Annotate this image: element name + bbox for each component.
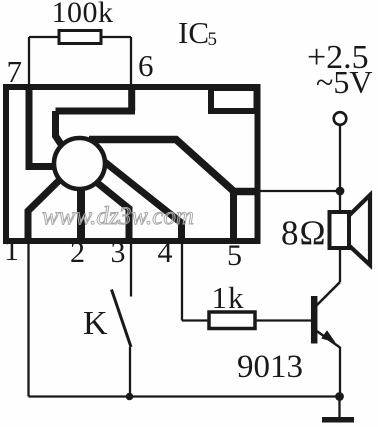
svg-text:100k: 100k <box>52 0 114 29</box>
svg-text:5: 5 <box>208 29 218 50</box>
svg-text:8: 8 <box>281 214 299 253</box>
svg-text:9013: 9013 <box>237 349 303 385</box>
svg-text:2: 2 <box>70 236 85 269</box>
svg-text:3: 3 <box>111 236 126 269</box>
svg-text:www.dz3w.com: www.dz3w.com <box>42 203 194 230</box>
svg-text:~5V: ~5V <box>316 64 372 100</box>
svg-text:K: K <box>83 305 108 342</box>
svg-text:1: 1 <box>4 234 19 267</box>
svg-text:5: 5 <box>227 239 242 272</box>
svg-text:4: 4 <box>158 236 173 269</box>
svg-text:7: 7 <box>7 54 23 89</box>
svg-text:Ω: Ω <box>300 214 326 253</box>
svg-text:1k: 1k <box>212 280 245 315</box>
svg-text:IC: IC <box>178 15 209 50</box>
svg-text:6: 6 <box>138 48 154 83</box>
